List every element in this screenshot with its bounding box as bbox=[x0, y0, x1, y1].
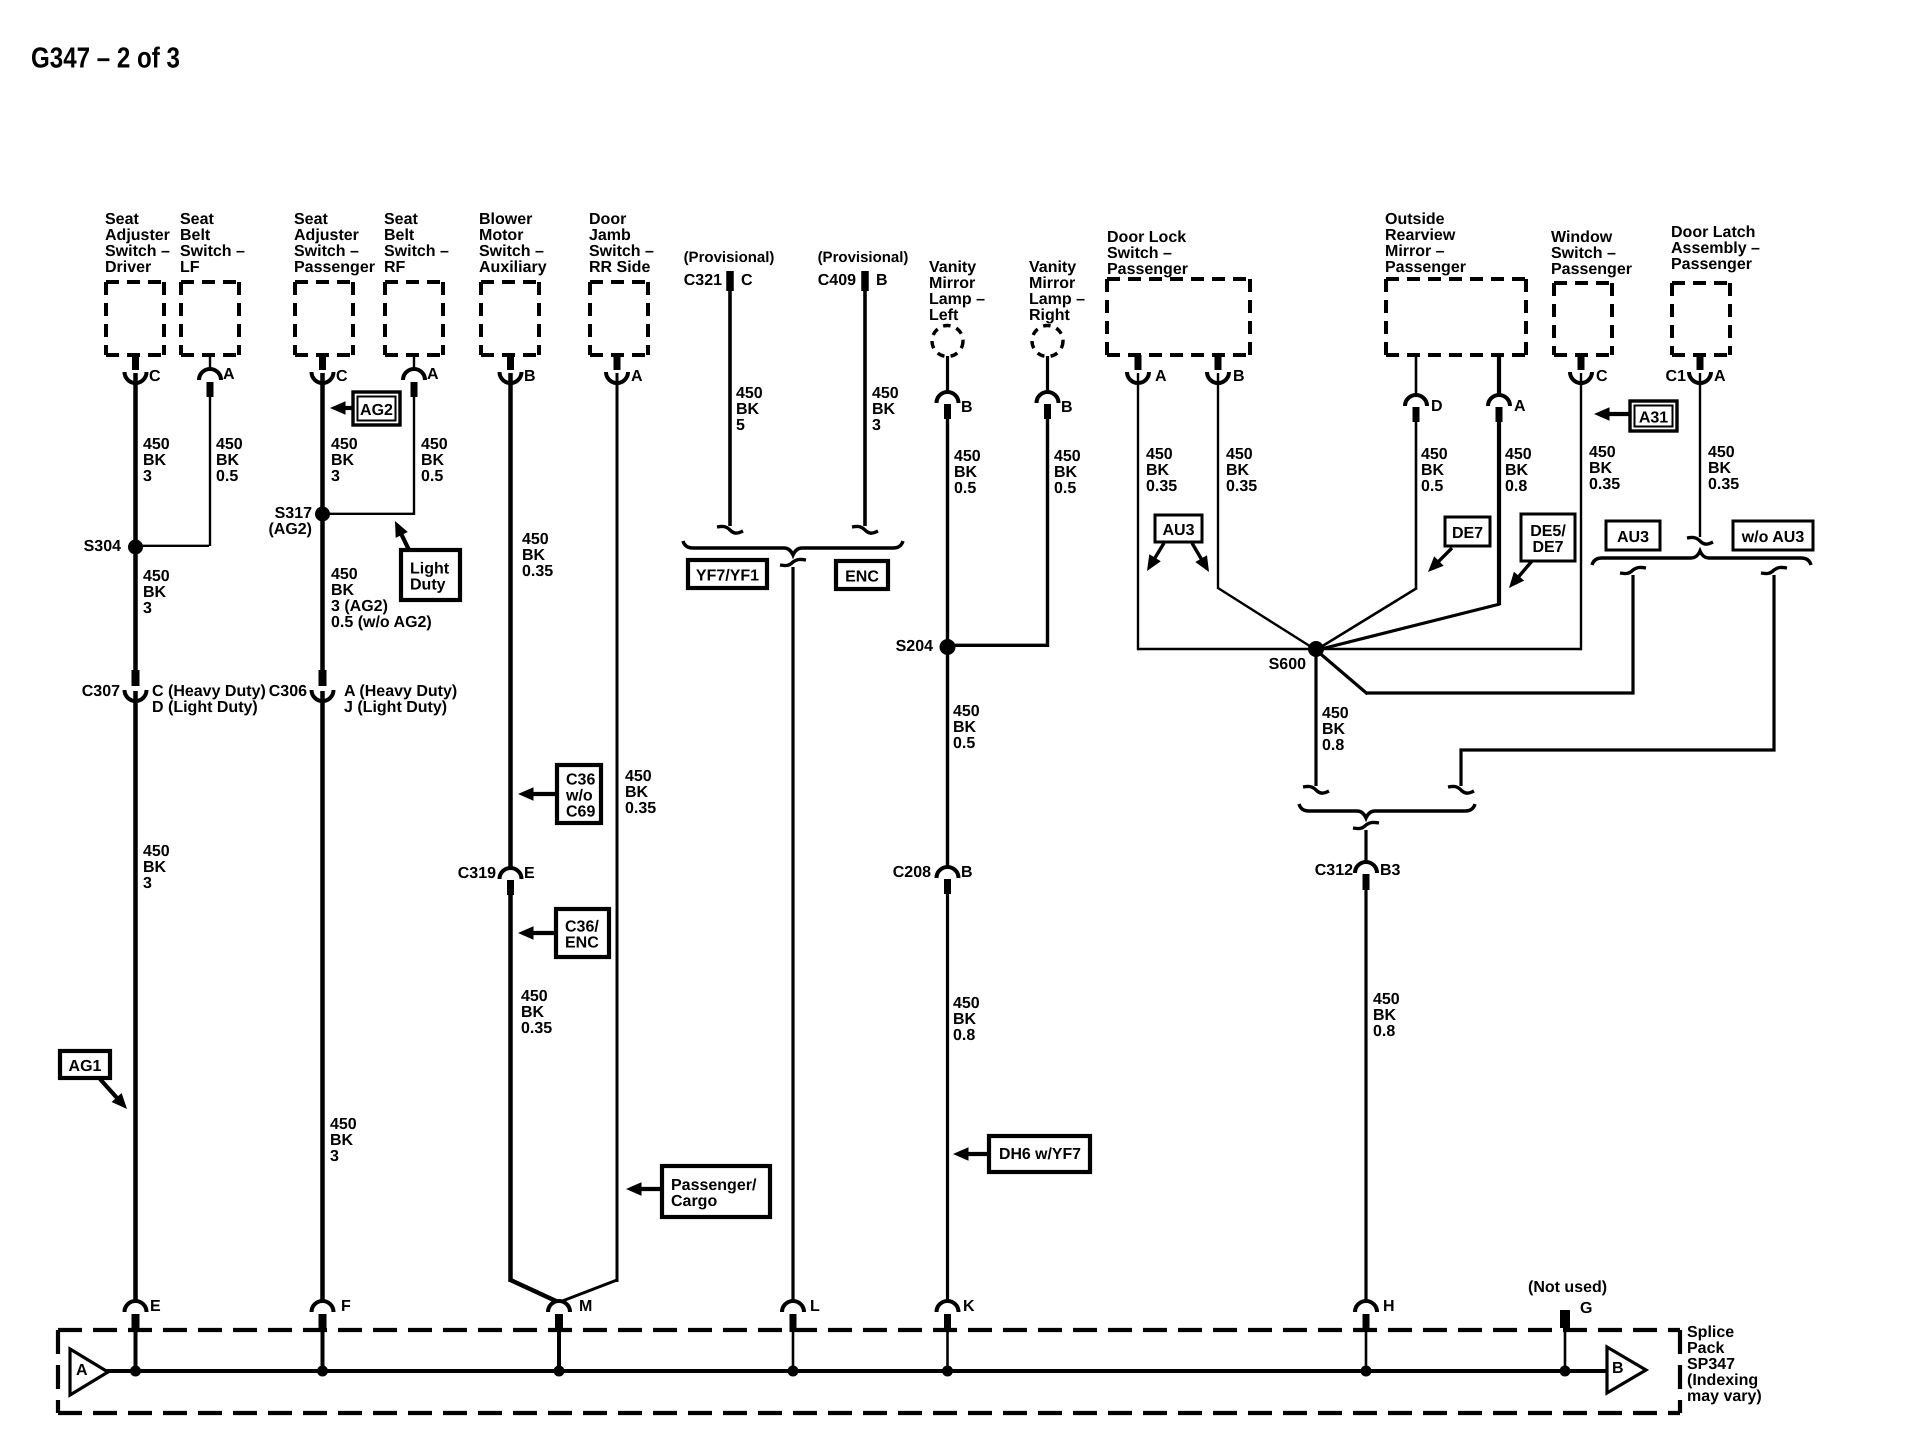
svg-text:0.35: 0.35 bbox=[1226, 478, 1257, 495]
svg-text:BK: BK bbox=[1505, 462, 1529, 479]
wire window switch C 450 BK 0.35 bbox=[1580, 373, 1582, 650]
svg-text:Assembly –: Assembly – bbox=[1671, 240, 1760, 257]
svg-text:C36: C36 bbox=[566, 772, 595, 789]
svg-text:BK: BK bbox=[216, 452, 240, 469]
svg-text:YF7/YF1: YF7/YF1 bbox=[696, 568, 759, 585]
svg-text:LF: LF bbox=[180, 259, 200, 276]
svg-text:450: 450 bbox=[1421, 446, 1448, 463]
hook at top of AU3 branch bbox=[1620, 567, 1646, 573]
svg-text:(Provisional): (Provisional) bbox=[818, 249, 909, 266]
svg-text:BK: BK bbox=[1421, 462, 1445, 479]
svg-text:0.35: 0.35 bbox=[625, 800, 656, 817]
svg-text:450: 450 bbox=[872, 385, 899, 402]
svg-text:BK: BK bbox=[1373, 1007, 1397, 1024]
svg-text:E: E bbox=[524, 865, 535, 882]
svg-text:3: 3 bbox=[331, 468, 340, 485]
svg-text:A: A bbox=[1155, 368, 1167, 385]
label box C36/ENC with arrow bbox=[528, 931, 556, 935]
svg-text:AG1: AG1 bbox=[69, 1058, 102, 1075]
brace grouping C321/C409 wires bbox=[683, 541, 903, 555]
svg-text:S600: S600 bbox=[1269, 656, 1306, 673]
svg-text:AU3: AU3 bbox=[1162, 522, 1194, 539]
svg-text:BK: BK bbox=[1322, 721, 1346, 738]
wire seat adjuster driver 450 BK 3 bbox=[133, 373, 138, 547]
svg-text:Passenger: Passenger bbox=[294, 259, 375, 276]
wire S204 down 450 BK 0.5 bbox=[946, 647, 949, 867]
svg-text:0.35: 0.35 bbox=[521, 1020, 552, 1037]
label box Light Duty with arrow bbox=[399, 530, 409, 550]
svg-text:Blower: Blower bbox=[479, 211, 532, 228]
svg-text:H: H bbox=[1383, 1298, 1395, 1315]
svg-text:450: 450 bbox=[1589, 444, 1616, 461]
svg-text:C208: C208 bbox=[893, 864, 931, 881]
svg-text:450: 450 bbox=[1322, 705, 1349, 722]
svg-text:BK: BK bbox=[1708, 460, 1732, 477]
svg-text:Mirror: Mirror bbox=[929, 275, 975, 292]
svg-text:(Provisional): (Provisional) bbox=[684, 249, 775, 266]
svg-text:(AG2): (AG2) bbox=[268, 521, 312, 538]
svg-text:3: 3 bbox=[143, 468, 152, 485]
wire S600 down 450 BK 0.8 bbox=[1314, 649, 1317, 786]
splice S204 bbox=[940, 639, 956, 655]
label box DE5/DE7 with arrow bbox=[1516, 561, 1533, 580]
svg-text:BK: BK bbox=[1226, 462, 1250, 479]
svg-text:K: K bbox=[963, 1298, 975, 1315]
connector pin C (Window Switch) bbox=[1578, 355, 1585, 370]
svg-text:3 (AG2): 3 (AG2) bbox=[331, 598, 388, 615]
svg-text:B: B bbox=[1612, 1360, 1624, 1377]
splice S304 bbox=[128, 540, 143, 555]
svg-text:BK: BK bbox=[421, 452, 445, 469]
svg-text:C312: C312 bbox=[1315, 862, 1353, 879]
svg-text:450: 450 bbox=[1054, 448, 1081, 465]
svg-text:A: A bbox=[631, 368, 643, 385]
hook at end of door latch wire bbox=[1687, 537, 1713, 544]
svg-text:E: E bbox=[150, 1298, 161, 1315]
hook at top of splice pack L wire bbox=[780, 559, 806, 565]
svg-text:AG2: AG2 bbox=[360, 402, 393, 419]
svg-text:RR Side: RR Side bbox=[589, 259, 650, 276]
svg-text:C: C bbox=[149, 368, 161, 385]
svg-text:Seat: Seat bbox=[384, 211, 418, 228]
connector C1 pin A (Door Latch Assembly) bbox=[1697, 355, 1704, 370]
svg-text:450: 450 bbox=[1146, 446, 1173, 463]
svg-text:Vanity: Vanity bbox=[1029, 259, 1076, 276]
svg-text:Passenger: Passenger bbox=[1385, 259, 1466, 276]
svg-text:450: 450 bbox=[953, 703, 980, 720]
connector pin D (Outside Rearview Mirror) bbox=[1415, 355, 1418, 395]
wire seat belt LF 450 BK 0.5 bbox=[209, 396, 211, 546]
svg-text:B: B bbox=[961, 399, 973, 416]
svg-text:B: B bbox=[876, 272, 888, 289]
svg-text:BK: BK bbox=[1054, 464, 1078, 481]
hook at end of C409 wire bbox=[852, 526, 878, 533]
svg-text:RF: RF bbox=[384, 259, 406, 276]
svg-text:Auxiliary: Auxiliary bbox=[479, 259, 547, 276]
label box YF7/YF1 bbox=[688, 560, 767, 588]
splice pack terminal L bbox=[782, 1301, 804, 1312]
svg-text:A31: A31 bbox=[1639, 410, 1668, 427]
svg-text:B: B bbox=[1233, 368, 1245, 385]
svg-text:450: 450 bbox=[625, 768, 652, 785]
wire from vanity right to splice S204 bbox=[948, 644, 1048, 647]
svg-text:450: 450 bbox=[143, 568, 170, 585]
svg-text:BK: BK bbox=[1589, 460, 1613, 477]
svg-text:BK: BK bbox=[953, 719, 977, 736]
svg-text:B: B bbox=[524, 368, 536, 385]
splice pack bus wire bbox=[106, 1369, 1608, 1373]
hook at top of w/o AU3 branch bbox=[1761, 567, 1787, 573]
wire C208 to terminal K 450 BK 0.8 bbox=[946, 894, 949, 1300]
svg-text:w/o AU3: w/o AU3 bbox=[1741, 529, 1805, 546]
wire C306 to terminal F 450 BK 3 bbox=[320, 691, 325, 1300]
svg-text:Passenger: Passenger bbox=[1107, 261, 1188, 278]
svg-text:M: M bbox=[579, 1298, 592, 1315]
svg-text:B: B bbox=[961, 864, 973, 881]
label box AG2 with arrow bbox=[340, 406, 354, 410]
svg-text:Door Lock: Door Lock bbox=[1107, 229, 1186, 246]
svg-text:Pack: Pack bbox=[1687, 1340, 1724, 1357]
svg-text:AU3: AU3 bbox=[1617, 529, 1649, 546]
wire S304 down 450 BK 3 bbox=[133, 547, 138, 670]
svg-text:DE5/: DE5/ bbox=[1530, 523, 1566, 540]
svg-text:B: B bbox=[1061, 399, 1073, 416]
connector pin B (Vanity Mirror Lamp - Right) bbox=[1046, 356, 1049, 392]
svg-text:450: 450 bbox=[954, 448, 981, 465]
label box DH6 w/YF7 with arrow bbox=[963, 1152, 991, 1156]
wire door latch 450 BK 0.35 bbox=[1699, 373, 1701, 537]
label box AU3 with two arrows bbox=[1152, 543, 1164, 563]
svg-text:S317: S317 bbox=[275, 505, 312, 522]
svg-text:0.8: 0.8 bbox=[1505, 478, 1527, 495]
svg-text:450: 450 bbox=[330, 1116, 357, 1133]
svg-text:BK: BK bbox=[331, 582, 355, 599]
bus connector triangle B bbox=[1607, 1347, 1646, 1393]
connector pin A (Seat Belt Switch - LF) bbox=[209, 355, 211, 369]
svg-text:Door: Door bbox=[589, 211, 626, 228]
splice pack terminal E bbox=[125, 1301, 147, 1312]
svg-text:C306: C306 bbox=[269, 683, 307, 700]
wire door jamb 450 BK 0.35 bbox=[616, 373, 619, 1282]
svg-text:450: 450 bbox=[521, 988, 548, 1005]
wire door lock A 450 BK 0.35 bbox=[1137, 373, 1139, 650]
svg-text:C (Heavy Duty): C (Heavy Duty) bbox=[152, 683, 266, 700]
wire C312 to terminal H 450 BK 0.8 bbox=[1364, 890, 1367, 1300]
svg-text:BK: BK bbox=[953, 1011, 977, 1028]
svg-text:0.8: 0.8 bbox=[1373, 1023, 1395, 1040]
svg-text:3: 3 bbox=[872, 417, 881, 434]
svg-text:450: 450 bbox=[331, 566, 358, 583]
svg-text:L: L bbox=[810, 1298, 820, 1315]
svg-text:Switch –: Switch – bbox=[1107, 245, 1172, 262]
svg-text:Outside: Outside bbox=[1385, 211, 1445, 228]
connector C306 pins A/J bbox=[319, 670, 327, 686]
svg-text:0.5: 0.5 bbox=[216, 468, 238, 485]
svg-text:Left: Left bbox=[929, 307, 959, 324]
svg-text:0.8: 0.8 bbox=[1322, 737, 1344, 754]
svg-text:Belt: Belt bbox=[384, 227, 415, 244]
svg-text:Jamb: Jamb bbox=[589, 227, 631, 244]
label box Passenger/Cargo with arrow bbox=[636, 1187, 662, 1191]
svg-text:0.5: 0.5 bbox=[1054, 480, 1076, 497]
svg-text:450: 450 bbox=[953, 995, 980, 1012]
wire door jamb diagonal to terminal M bbox=[561, 1280, 617, 1302]
svg-text:may vary): may vary) bbox=[1687, 1388, 1762, 1405]
connector pin A (Seat Belt Switch - RF) bbox=[413, 355, 415, 369]
svg-text:C: C bbox=[741, 272, 753, 289]
svg-text:C319: C319 bbox=[458, 865, 496, 882]
label box w/o AU3 bbox=[1733, 521, 1813, 550]
svg-text:C69: C69 bbox=[566, 804, 595, 821]
svg-text:F: F bbox=[341, 1298, 351, 1315]
wire door lock B 450 BK 0.35 bbox=[1217, 373, 1219, 589]
svg-text:Door Latch: Door Latch bbox=[1671, 224, 1755, 241]
svg-text:Motor: Motor bbox=[479, 227, 523, 244]
svg-text:0.5 (w/o AG2): 0.5 (w/o AG2) bbox=[331, 614, 432, 631]
svg-text:BK: BK bbox=[522, 547, 546, 564]
svg-text:ENC: ENC bbox=[565, 935, 599, 952]
svg-text:Seat: Seat bbox=[105, 211, 139, 228]
svg-text:Light: Light bbox=[410, 561, 450, 578]
wire blower diagonal to terminal M bbox=[511, 1280, 558, 1302]
AU3 branch wire to S600 bbox=[1366, 575, 1633, 693]
svg-text:450: 450 bbox=[143, 843, 170, 860]
wire seat belt RF 450 BK 0.5 bbox=[413, 396, 415, 515]
svg-text:(Not used): (Not used) bbox=[1528, 1279, 1607, 1296]
svg-text:450: 450 bbox=[1708, 444, 1735, 461]
svg-text:C321: C321 bbox=[684, 272, 722, 289]
connector pin B (Blower Motor Switch - Auxiliary) bbox=[507, 355, 514, 370]
svg-text:Adjuster: Adjuster bbox=[294, 227, 359, 244]
svg-text:w/o: w/o bbox=[565, 788, 593, 805]
svg-text:BK: BK bbox=[143, 859, 167, 876]
label box A31 with arrow bbox=[1604, 412, 1630, 416]
svg-text:Mirror: Mirror bbox=[1029, 275, 1075, 292]
svg-text:G: G bbox=[1580, 1300, 1592, 1317]
svg-text:Splice: Splice bbox=[1687, 1324, 1734, 1341]
connector pin A (Door Lock Switch) bbox=[1135, 355, 1142, 370]
wire seat adjuster passenger 450 BK 3 bbox=[320, 373, 325, 514]
svg-text:0.35: 0.35 bbox=[1589, 476, 1620, 493]
svg-text:0.5: 0.5 bbox=[954, 480, 976, 497]
svg-text:C: C bbox=[336, 368, 348, 385]
svg-text:Adjuster: Adjuster bbox=[105, 227, 170, 244]
splice pack SP347 dashed enclosure bbox=[58, 1328, 1680, 1332]
svg-text:Belt: Belt bbox=[180, 227, 211, 244]
svg-text:B3: B3 bbox=[1380, 862, 1401, 879]
splice pack terminal M bbox=[548, 1301, 570, 1312]
wire C307 to terminal E 450 BK 3 bbox=[133, 691, 138, 1300]
brace joining S600 and w/o AU3 branch bbox=[1299, 804, 1475, 818]
svg-text:Passenger: Passenger bbox=[1551, 261, 1632, 278]
label box DE7 with arrow bbox=[1435, 548, 1452, 565]
svg-text:450: 450 bbox=[522, 531, 549, 548]
wire mirror A 450 BK 0.8 bbox=[1497, 422, 1501, 605]
svg-text:3: 3 bbox=[330, 1148, 339, 1165]
svg-text:A: A bbox=[76, 1362, 88, 1379]
svg-text:C307: C307 bbox=[82, 683, 120, 700]
svg-text:0.35: 0.35 bbox=[522, 563, 553, 580]
splice pack terminal F bbox=[312, 1301, 334, 1312]
svg-text:450: 450 bbox=[143, 436, 170, 453]
svg-text:Passenger/: Passenger/ bbox=[671, 1177, 757, 1194]
svg-text:Duty: Duty bbox=[410, 577, 446, 594]
svg-text:C1: C1 bbox=[1666, 368, 1687, 385]
svg-text:D (Light Duty): D (Light Duty) bbox=[152, 699, 258, 716]
label box AU3 (right) bbox=[1606, 521, 1660, 550]
label box ENC bbox=[836, 561, 888, 589]
splice pack terminal H bbox=[1355, 1301, 1377, 1312]
connector C307 pins C/D bbox=[132, 670, 140, 686]
splice S317 (AG2) bbox=[315, 507, 330, 522]
svg-text:Lamp –: Lamp – bbox=[1029, 291, 1085, 308]
bus connector triangle A bbox=[70, 1349, 108, 1395]
svg-text:3: 3 bbox=[143, 875, 152, 892]
label box C36 w/o C69 with arrow bbox=[528, 792, 557, 796]
wire C319 down 450 BK 0.35 bbox=[508, 895, 513, 1282]
svg-text:3: 3 bbox=[143, 600, 152, 617]
svg-text:450: 450 bbox=[421, 436, 448, 453]
svg-text:450: 450 bbox=[1505, 446, 1532, 463]
w/o AU3 branch wire bbox=[1461, 575, 1774, 786]
svg-text:BK: BK bbox=[1146, 462, 1170, 479]
label box AG1 with arrow bbox=[100, 1079, 120, 1102]
svg-text:S204: S204 bbox=[896, 638, 933, 655]
svg-text:BK: BK bbox=[143, 452, 167, 469]
svg-text:(Indexing: (Indexing bbox=[1687, 1372, 1758, 1389]
svg-text:D: D bbox=[1431, 398, 1443, 415]
svg-text:Cargo: Cargo bbox=[671, 1193, 717, 1210]
svg-text:G347 – 2 of 3: G347 – 2 of 3 bbox=[31, 43, 180, 75]
svg-text:Passenger: Passenger bbox=[1671, 256, 1752, 273]
svg-text:450: 450 bbox=[216, 436, 243, 453]
wire brace to C312 bbox=[1364, 830, 1367, 861]
svg-text:BK: BK bbox=[736, 401, 760, 418]
svg-text:450: 450 bbox=[331, 436, 358, 453]
svg-text:C36/: C36/ bbox=[565, 919, 599, 936]
svg-text:SP347: SP347 bbox=[1687, 1356, 1735, 1373]
svg-text:BK: BK bbox=[521, 1004, 545, 1021]
svg-text:450: 450 bbox=[736, 385, 763, 402]
svg-text:BK: BK bbox=[954, 464, 978, 481]
svg-text:Right: Right bbox=[1029, 307, 1071, 324]
connector pin A (Outside Rearview Mirror) bbox=[1497, 355, 1501, 395]
brace splitting door latch wire (AU3 / w/o AU3) bbox=[1592, 551, 1811, 565]
svg-text:ENC: ENC bbox=[845, 569, 879, 586]
svg-text:Mirror –: Mirror – bbox=[1385, 243, 1445, 260]
svg-text:Lamp –: Lamp – bbox=[929, 291, 985, 308]
svg-text:A: A bbox=[1714, 368, 1726, 385]
hook at end of C321 wire bbox=[717, 526, 743, 533]
connector pin B (Vanity Mirror Lamp - Left) bbox=[946, 356, 949, 392]
svg-text:J (Light Duty): J (Light Duty) bbox=[344, 699, 447, 716]
svg-text:A: A bbox=[1514, 398, 1526, 415]
hook at top of C312 wire bbox=[1353, 822, 1379, 828]
connector pin C (Seat Adjuster Switch - Passenger) bbox=[319, 355, 326, 370]
wire to splice pack terminal L bbox=[791, 567, 794, 1300]
svg-text:450: 450 bbox=[1373, 991, 1400, 1008]
connector pin A (Door Jamb Switch - RR Side) bbox=[614, 355, 621, 370]
svg-text:Switch –: Switch – bbox=[589, 243, 654, 260]
wire mirror D 450 BK 0.5 bbox=[1415, 422, 1418, 589]
svg-text:0.5: 0.5 bbox=[953, 735, 975, 752]
splice pack terminal K bbox=[937, 1301, 959, 1312]
wire C409 450 BK 3 bbox=[863, 291, 867, 526]
svg-text:Rearview: Rearview bbox=[1385, 227, 1456, 244]
svg-text:Switch –: Switch – bbox=[105, 243, 170, 260]
svg-text:0.35: 0.35 bbox=[1708, 476, 1739, 493]
svg-text:Switch –: Switch – bbox=[384, 243, 449, 260]
splice S600 bbox=[1308, 641, 1324, 657]
svg-text:Window: Window bbox=[1551, 229, 1613, 246]
hook at bottom of S600 wire bbox=[1303, 786, 1329, 793]
svg-text:5: 5 bbox=[736, 417, 745, 434]
wire vanity left 450 BK 0.5 bbox=[946, 419, 949, 647]
svg-text:Switch –: Switch – bbox=[294, 243, 359, 260]
svg-text:BK: BK bbox=[331, 452, 355, 469]
svg-text:A (Heavy Duty): A (Heavy Duty) bbox=[344, 683, 457, 700]
connector pin B (Door Lock Switch) bbox=[1215, 355, 1222, 370]
svg-text:BK: BK bbox=[872, 401, 896, 418]
wire blower motor 450 BK 0.35 (upper) bbox=[508, 373, 513, 867]
hook at bottom of w/o AU3 branch bbox=[1448, 786, 1474, 793]
svg-text:0.5: 0.5 bbox=[1421, 478, 1443, 495]
svg-text:C409: C409 bbox=[818, 272, 856, 289]
svg-text:A: A bbox=[223, 366, 235, 383]
svg-text:Seat: Seat bbox=[180, 211, 214, 228]
svg-text:0.8: 0.8 bbox=[953, 1027, 975, 1044]
svg-text:DE7: DE7 bbox=[1532, 539, 1563, 556]
svg-text:Switch –: Switch – bbox=[180, 243, 245, 260]
wire S317 down 450 BK 3(AG2) 0.5(w/o AG2) bbox=[320, 514, 325, 670]
svg-text:0.35: 0.35 bbox=[1146, 478, 1177, 495]
svg-text:Switch –: Switch – bbox=[1551, 245, 1616, 262]
svg-text:Driver: Driver bbox=[105, 259, 151, 276]
svg-text:0.5: 0.5 bbox=[421, 468, 443, 485]
wire C321 450 BK 5 bbox=[728, 291, 732, 526]
svg-text:BK: BK bbox=[143, 584, 167, 601]
svg-text:C: C bbox=[1596, 368, 1608, 385]
svg-text:BK: BK bbox=[330, 1132, 354, 1149]
svg-text:Seat: Seat bbox=[294, 211, 328, 228]
svg-text:450: 450 bbox=[1226, 446, 1253, 463]
svg-text:Vanity: Vanity bbox=[929, 259, 976, 276]
svg-text:BK: BK bbox=[625, 784, 649, 801]
wire vanity right 450 BK 0.5 bbox=[1046, 419, 1049, 647]
svg-text:DE7: DE7 bbox=[1452, 525, 1483, 542]
svg-text:DH6 w/YF7: DH6 w/YF7 bbox=[999, 1146, 1081, 1163]
svg-text:S304: S304 bbox=[84, 538, 121, 555]
connector pin C (Seat Adjuster Switch - Driver) bbox=[132, 355, 139, 370]
svg-text:Switch –: Switch – bbox=[479, 243, 544, 260]
svg-text:A: A bbox=[427, 366, 439, 383]
